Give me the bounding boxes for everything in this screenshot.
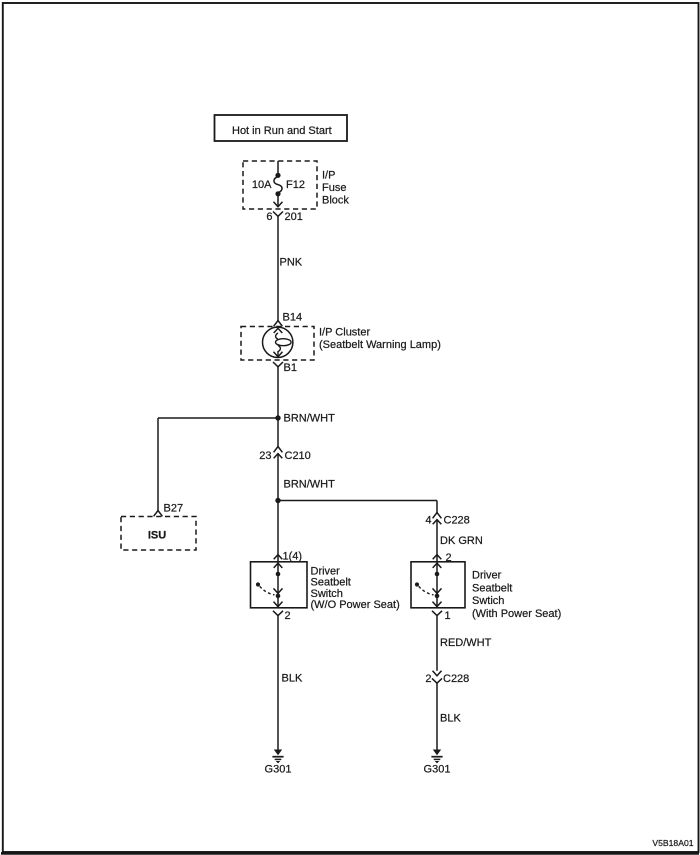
junction 2 [275,498,280,503]
svg-text:B27: B27 [164,503,184,515]
wire: junction 2 to left switch [277,501,279,554]
label I/P Fuse Block [322,170,349,207]
svg-text:Swtich: Swtich [472,595,504,607]
switch: driver seatbelt (w/o power seat) [251,553,308,608]
wire: cluster to junction [277,367,279,418]
wire: right branch down to C228 [436,501,438,513]
svg-text:DK GRN: DK GRN [440,535,483,547]
svg-text:F12: F12 [286,179,305,191]
svg-text:ISU: ISU [148,530,166,542]
svg-text:Driver: Driver [472,570,502,582]
wire: fuse input [277,161,279,174]
connector C228 (pin 2) [432,671,442,683]
connector C228 (pin 4) [433,513,442,525]
svg-text:I/P Cluster: I/P Cluster [319,327,370,339]
ground G301 (left) [265,750,292,776]
wire: junction to ISU branch horizontal [158,417,278,419]
wire: ISU branch vertical [157,418,159,511]
ground G301 (right) [424,750,451,776]
svg-text:RED/WHT: RED/WHT [440,637,492,649]
svg-text:Switch: Switch [311,588,343,600]
svg-text:2: 2 [425,673,431,685]
svg-text:23: 23 [259,450,271,462]
switch: driver seatbelt (with power seat) [411,553,465,608]
wire: fuse to cluster [277,216,279,320]
fuse F12 10A [274,173,283,207]
svg-text:I/P: I/P [322,170,335,182]
svg-text:Seatbelt: Seatbelt [472,582,512,594]
svg-text:C228: C228 [444,515,470,527]
wire: C210 to junction 2 [277,454,279,501]
svg-text:Fuse: Fuse [322,182,346,194]
svg-text:6: 6 [266,211,272,223]
svg-text:(W/O Power Seat): (W/O Power Seat) [311,599,400,611]
svg-text:(Seatbelt Warning Lamp): (Seatbelt Warning Lamp) [319,339,441,351]
wire: C228 to right switch [436,520,438,553]
svg-text:Seatbelt: Seatbelt [311,577,351,589]
svg-text:BLK: BLK [282,673,303,685]
svg-text:1(4): 1(4) [283,551,303,563]
svg-text:G301: G301 [424,764,451,776]
svg-text:4: 4 [425,515,431,527]
svg-text:C210: C210 [285,450,311,462]
svg-text:Block: Block [322,195,349,207]
svg-text:201: 201 [285,211,303,223]
label Driver Seatbelt Switch (W/O Power Seat) [311,566,400,612]
connector: left switch bottom exit [273,611,283,616]
wire: junction to C210 [277,418,279,447]
wire: right switch to C228 lower [436,616,438,671]
svg-text:B14: B14 [283,312,303,324]
label Driver Seatbelt Swtich (With Power Seat) [472,570,561,620]
svg-text:(With Power Seat): (With Power Seat) [472,608,561,620]
svg-text:B1: B1 [284,362,297,374]
connector B1 [273,362,283,367]
svg-text:BRN/WHT: BRN/WHT [284,479,336,491]
svg-text:2: 2 [285,610,291,622]
connector: right switch bottom exit [432,611,442,616]
ISU module [121,517,196,551]
svg-text:BRN/WHT: BRN/WHT [284,413,336,425]
wire: junction 2 to right branch horizontal [278,500,437,502]
I/P Cluster box [241,327,314,361]
label box: Hot in Run and Start [215,115,348,141]
label I/P Cluster (Seatbelt Warning Lamp) [319,327,441,352]
svg-text:1: 1 [445,610,451,622]
svg-text:V5B18A01: V5B18A01 [652,838,693,848]
connector B27 [154,511,163,517]
I/P Fuse Block box [243,161,317,209]
connector terminal under fuse block [273,212,283,217]
wire: left switch to left ground [277,616,279,750]
svg-text:10A: 10A [252,179,272,191]
svg-text:G301: G301 [265,764,292,776]
junction [275,415,280,420]
svg-text:C228: C228 [443,673,469,685]
wire: C228 to right ground [436,683,438,749]
lamp: seatbelt warning lamp [263,327,293,357]
svg-text:Driver: Driver [311,566,341,578]
connector C210 [274,447,283,459]
svg-text:BLK: BLK [440,713,461,725]
svg-text:PNK: PNK [280,257,303,269]
connector B14 [274,321,283,327]
svg-text:Hot in Run and Start: Hot in Run and Start [232,125,332,137]
